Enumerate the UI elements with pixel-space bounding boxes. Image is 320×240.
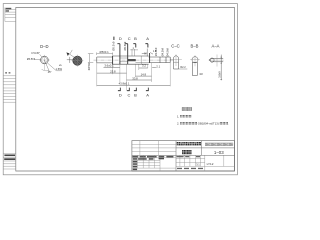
overall dim 43.8 [97, 85, 170, 87]
svg-text:A: A [146, 36, 149, 41]
left margin top table text smudges [6, 8, 12, 12]
svg-text:Ø3.5h9: Ø3.5h9 [27, 58, 36, 61]
A-A vertical dimension line [220, 55, 222, 81]
svg-text:3:1: 3:1 [196, 162, 200, 166]
left margin middle table [3, 76, 16, 102]
D-D lower-right leader [47, 63, 62, 71]
svg-text:A: A [146, 93, 149, 98]
A-A dimension arrows [221, 57, 222, 64]
small dim 1.5 above shaft [142, 49, 153, 57]
shaft segment 2 (main body) [112, 56, 148, 64]
svg-text:45°: 45° [48, 71, 52, 74]
lower cut marks [118, 88, 148, 91]
header text row under change rows [132, 156, 173, 158]
D-D circle [41, 56, 49, 64]
keyway line between B and A [136, 62, 149, 64]
svg-text:Ø5.5h9: Ø5.5h9 [123, 41, 127, 50]
A-A crosshair vertical [216, 55, 218, 67]
C-C section outline with rounded top [174, 56, 179, 69]
svg-text:C: C [128, 36, 131, 41]
C-C flat boundary line [174, 61, 179, 63]
dim 3.2 [139, 67, 148, 69]
C-C crosshair [171, 54, 182, 66]
svg-text:LY12: LY12 [207, 162, 214, 166]
hatched view left plus mark [67, 57, 73, 63]
shaft feature line right of B [140, 56, 142, 64]
svg-text:Ø5±0.1: Ø5±0.1 [100, 50, 110, 54]
svg-text:33.8: 33.8 [132, 76, 138, 80]
svg-text:GB1804-m(IT13): GB1804-m(IT13) [198, 121, 219, 125]
dim 14.8 [136, 75, 152, 77]
svg-text:43.8±0.1: 43.8±0.1 [119, 82, 130, 86]
upper cut marks [117, 44, 147, 48]
inner drawing frame [16, 8, 235, 172]
B-B stem rect [192, 62, 197, 75]
chamfer lines between D and C [120, 58, 128, 62]
svg-text:B: B [134, 36, 137, 41]
D-D 45 degree angle dim [44, 60, 49, 71]
A-A left arrows [209, 59, 211, 61]
svg-text:3.6h9: 3.6h9 [218, 71, 222, 78]
extension lines below shaft [97, 63, 170, 91]
sheet row blobs [177, 168, 203, 169]
B-B circle [192, 57, 198, 63]
svg-text:B: B [134, 93, 137, 98]
change-record rows top-left [132, 141, 176, 156]
dim 3.6±0.1 [104, 66, 120, 68]
signature grid lower-left [132, 155, 176, 171]
svg-text:1–03: 1–03 [214, 150, 224, 155]
vertical dimension tolerance smudge left [113, 37, 115, 40]
title block outer [132, 141, 235, 171]
small dim 1 above shaft [130, 49, 138, 56]
lower right small header blobs [177, 156, 200, 157]
A-A flats bar [211, 59, 224, 62]
svg-text:0.5×45°: 0.5×45° [31, 52, 40, 55]
shaft segment 3 (right end) [149, 57, 171, 63]
left margin middle table marks [5, 72, 10, 73]
keyway slot between C and B [128, 59, 136, 61]
title block main verticals [176, 141, 201, 171]
part name 中心轴 glyphs [182, 150, 191, 154]
svg-text:1.: 1. [177, 114, 180, 118]
svg-text:2.1: 2.1 [156, 64, 160, 68]
upper section letters [119, 36, 149, 41]
svg-text:.: . [228, 121, 229, 125]
dim 2.1 [152, 66, 156, 68]
class cell text glyphs [177, 142, 201, 145]
svg-text:D: D [119, 36, 122, 41]
C-C bottom leader [179, 68, 188, 70]
shaft segment 1 (left thin end) [97, 57, 113, 63]
svg-text:2.: 2. [177, 121, 180, 125]
svg-text:Ø4.5h9: Ø4.5h9 [89, 62, 91, 70]
svg-text:D: D [119, 93, 122, 98]
svg-text:A–A: A–A [212, 44, 220, 49]
svg-text:Ø5: Ø5 [59, 65, 63, 67]
dim 33.8 [127, 79, 152, 81]
B-B crosshair [190, 55, 200, 66]
svg-text:R2.2: R2.2 [180, 66, 186, 69]
svg-text:3.6±0.1: 3.6±0.1 [104, 64, 114, 68]
svg-text:B–B: B–B [191, 44, 199, 49]
svg-text:C: C [128, 93, 131, 98]
svg-text:Ø5.5h9: Ø5.5h9 [112, 41, 116, 51]
left diameter dim over segment1 [97, 52, 113, 55]
lower section letters [119, 93, 149, 98]
A-A bottom arrow mark [220, 79, 222, 81]
centerline [94, 59, 174, 61]
dim 23.8 [97, 72, 127, 74]
thick section cut traces on shaft [113, 44, 150, 65]
A-A centerline [209, 59, 224, 61]
svg-text:1.5h9: 1.5h9 [56, 68, 63, 71]
lower right grid [176, 155, 235, 171]
company name text glyphs row1 right [205, 143, 233, 146]
svg-text:Ø4.2h9: Ø4.2h9 [161, 47, 165, 56]
svg-text:Ø4.5h9: Ø4.5h9 [166, 48, 170, 57]
hatched view leader with arrow [68, 53, 74, 57]
svg-text:3.2: 3.2 [142, 64, 146, 68]
A-A circle [210, 58, 214, 62]
D-D chamfer leader [40, 54, 42, 57]
far-left vertical diameter dim [88, 54, 93, 63]
svg-text:23.8: 23.8 [110, 69, 116, 73]
signature row texts [133, 158, 164, 170]
hatched view crosshair [71, 55, 83, 67]
left margin bottom table [3, 154, 16, 169]
left margin top table [5, 8, 16, 22]
D-D crosshair [39, 55, 50, 70]
title block main horizontals [132, 148, 235, 155]
D-D inscribed diamond [41, 56, 49, 64]
outer paper frame [3, 4, 237, 175]
left margin bottom table text smudges [4, 155, 15, 161]
hatched circle [73, 56, 82, 65]
svg-text:D–D: D–D [40, 44, 48, 49]
svg-text:14.8: 14.8 [141, 72, 147, 76]
svg-text:R2: R2 [200, 73, 204, 76]
tech req heading glyphs [182, 107, 192, 110]
svg-text:C–C: C–C [171, 44, 179, 49]
